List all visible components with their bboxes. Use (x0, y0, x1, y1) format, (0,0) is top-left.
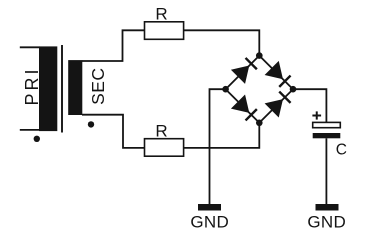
junction dot bridge top node (256, 52, 263, 59)
capacitor C top plate (313, 122, 341, 127)
wire R1 right lead (184, 30, 260, 55)
wire secondary top lead to node (82, 30, 145, 61)
bridge edge left-top wire (226, 56, 260, 90)
wire primary bottom lead (20, 129, 40, 131)
svg-text:PRI: PRI (22, 66, 42, 105)
ground symbol GND1 bar (198, 204, 221, 211)
transformer T1 secondary winding bar (68, 60, 82, 115)
bridge edge bottom-right wire (259, 89, 293, 123)
junction dot bridge bottom node (256, 120, 263, 127)
svg-text:GND: GND (190, 212, 229, 231)
diode D4 (bottom to right) (265, 92, 291, 118)
capacitor C bottom plate (313, 133, 341, 138)
diode D2 (top to right) (265, 61, 291, 87)
svg-text:GND: GND (307, 212, 346, 231)
capacitor C plus sign (312, 111, 321, 119)
wire secondary bottom lead to node (82, 115, 145, 148)
bridge edge top-right wire (259, 56, 293, 90)
svg-text:C: C (336, 141, 347, 158)
svg-text:R: R (155, 121, 167, 140)
resistor R1 (top) body (145, 22, 184, 40)
wire primary top lead (20, 46, 40, 48)
transformer core line (61, 45, 63, 133)
polarity dot secondary (88, 121, 94, 127)
polarity dot primary (34, 136, 40, 142)
wire bridge left node to ground (210, 89, 226, 204)
diode D3 (left to bottom) (231, 95, 257, 121)
svg-text:R: R (155, 5, 167, 24)
wire capacitor to ground (325, 138, 327, 204)
junction dot bridge right node (290, 86, 297, 93)
diode D1 (left to top) (231, 58, 257, 84)
junction dot bridge left node (222, 86, 229, 93)
transformer T1 primary winding bar (39, 46, 57, 131)
wire R2 right lead to bridge bottom node (184, 123, 260, 148)
wire bridge right node to capacitor (293, 89, 326, 122)
resistor R2 (bottom) body (145, 139, 184, 157)
bridge edge left-bottom wire (226, 89, 260, 123)
ground symbol GND2 bar (316, 204, 339, 211)
svg-text:SEC: SEC (88, 67, 108, 104)
